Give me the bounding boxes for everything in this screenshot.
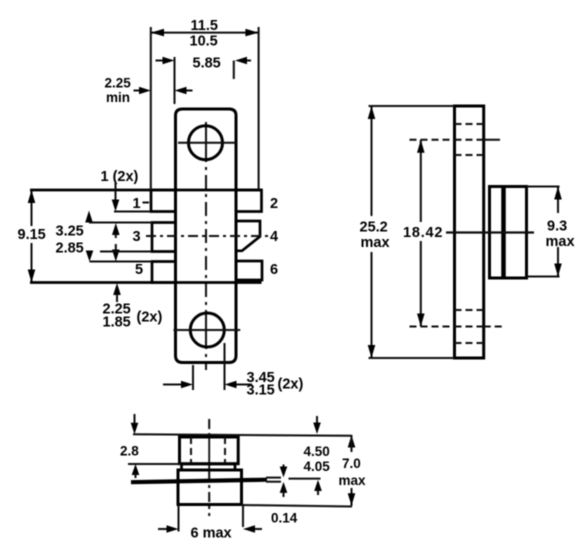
- svg-text:max: max: [339, 473, 367, 488]
- svg-text:(2x): (2x): [137, 310, 163, 326]
- svg-text:9.15: 9.15: [18, 227, 46, 243]
- svg-text:18.42: 18.42: [403, 225, 443, 241]
- svg-text:3: 3: [133, 229, 141, 245]
- svg-text:6 max: 6 max: [191, 526, 232, 542]
- svg-text:9.3: 9.3: [547, 219, 567, 235]
- svg-text:5: 5: [135, 262, 143, 278]
- svg-text:25.2: 25.2: [360, 220, 388, 236]
- svg-text:2.85: 2.85: [56, 241, 84, 257]
- svg-text:2.8: 2.8: [120, 444, 139, 459]
- svg-text:1 (2x): 1 (2x): [101, 169, 139, 185]
- svg-text:1: 1: [133, 196, 141, 212]
- svg-text:3.25: 3.25: [56, 224, 84, 240]
- svg-text:3.15: 3.15: [247, 383, 275, 399]
- svg-text:10.5: 10.5: [190, 34, 218, 50]
- svg-text:4.50: 4.50: [304, 444, 330, 459]
- svg-text:7.0: 7.0: [342, 456, 361, 471]
- svg-text:0.14: 0.14: [271, 511, 298, 526]
- svg-text:4: 4: [270, 229, 278, 245]
- svg-text:(2x): (2x): [278, 377, 304, 393]
- svg-text:11.5: 11.5: [191, 18, 218, 34]
- svg-text:max: max: [546, 234, 575, 250]
- svg-text:min: min: [106, 90, 130, 105]
- svg-text:max: max: [361, 235, 390, 251]
- svg-text:2: 2: [270, 196, 278, 212]
- svg-text:4.05: 4.05: [304, 459, 331, 474]
- svg-text:5.85: 5.85: [193, 56, 221, 72]
- svg-text:2.25: 2.25: [105, 76, 132, 91]
- svg-text:1.85: 1.85: [103, 315, 131, 331]
- svg-text:6: 6: [270, 262, 278, 278]
